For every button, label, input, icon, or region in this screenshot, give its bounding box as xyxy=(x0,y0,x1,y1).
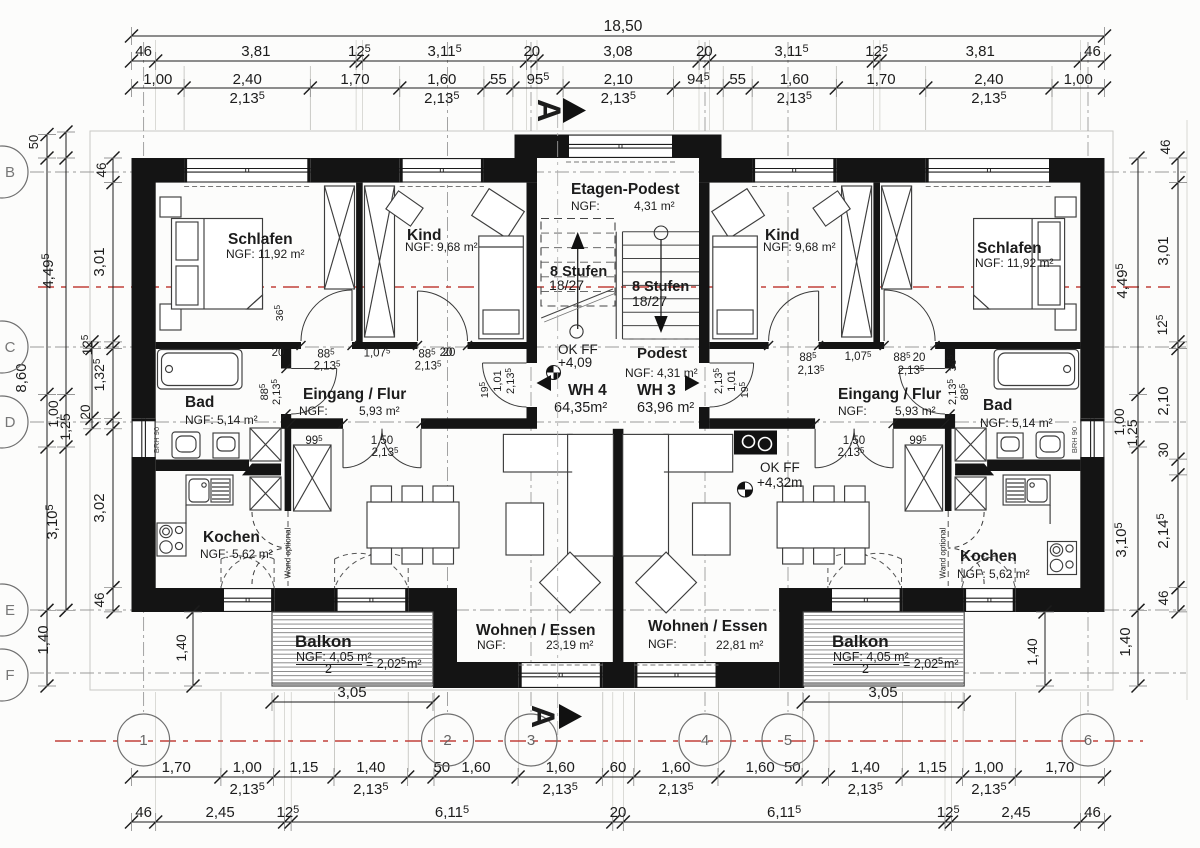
svg-text:1,60: 1,60 xyxy=(546,759,575,776)
svg-text:46: 46 xyxy=(92,592,107,607)
svg-text:Bad: Bad xyxy=(983,397,1012,414)
svg-text:NGF: 4,05 m²: NGF: 4,05 m² xyxy=(296,650,372,664)
svg-text:Eingang / Flur: Eingang / Flur xyxy=(303,386,406,403)
svg-text:1,00: 1,00 xyxy=(974,759,1003,776)
svg-text:1,50: 1,50 xyxy=(371,435,393,447)
svg-text:Wand optional: Wand optional xyxy=(284,527,293,578)
svg-text:1,40: 1,40 xyxy=(356,759,385,776)
svg-text:5: 5 xyxy=(401,656,406,666)
svg-text:3,05: 3,05 xyxy=(868,684,897,701)
svg-text:NGF: 11,92 m²: NGF: 11,92 m² xyxy=(975,256,1053,270)
svg-text:46: 46 xyxy=(1158,139,1173,154)
svg-text:1,25: 1,25 xyxy=(57,413,73,440)
svg-text:Podest: Podest xyxy=(637,345,687,362)
svg-text:20: 20 xyxy=(523,43,540,60)
svg-text:5: 5 xyxy=(938,656,943,666)
svg-text:NGF: 9,68 m²: NGF: 9,68 m² xyxy=(763,240,836,254)
svg-text:2,40: 2,40 xyxy=(233,71,262,88)
svg-text:OK FF: OK FF xyxy=(760,460,800,475)
svg-text:NGF: 5,14 m²: NGF: 5,14 m² xyxy=(980,416,1053,430)
svg-text:20: 20 xyxy=(272,347,285,359)
svg-text:20: 20 xyxy=(696,43,713,60)
svg-text:3,81: 3,81 xyxy=(241,43,270,60)
svg-text:NGF:: NGF: xyxy=(299,404,328,418)
svg-text:1,00: 1,00 xyxy=(233,759,262,776)
svg-text:Schlafen: Schlafen xyxy=(228,231,293,248)
svg-text:3,08: 3,08 xyxy=(603,43,632,60)
svg-text:Balkon: Balkon xyxy=(295,632,352,651)
svg-text:= 2,02: = 2,02 xyxy=(366,657,401,671)
svg-text:Wohnen / Essen: Wohnen / Essen xyxy=(476,622,595,639)
svg-text:B: B xyxy=(5,164,15,181)
svg-text:2,45: 2,45 xyxy=(205,804,234,821)
svg-text:2,10: 2,10 xyxy=(1155,386,1172,415)
svg-text:NGF: 5,62 m²: NGF: 5,62 m² xyxy=(200,547,273,561)
svg-text:A: A xyxy=(525,705,561,728)
svg-text:Wand optional: Wand optional xyxy=(939,527,948,578)
svg-text:Wohnen / Essen: Wohnen / Essen xyxy=(648,618,767,635)
svg-text:2: 2 xyxy=(325,662,332,676)
svg-text:8,60: 8,60 xyxy=(13,363,30,392)
svg-text:1,60: 1,60 xyxy=(745,759,774,776)
svg-text:1,40: 1,40 xyxy=(851,759,880,776)
svg-text:2,10: 2,10 xyxy=(604,71,633,88)
svg-text:5,93 m²: 5,93 m² xyxy=(895,404,936,418)
svg-text:5,93 m²: 5,93 m² xyxy=(359,404,400,418)
svg-text:18,50: 18,50 xyxy=(604,18,643,35)
svg-text:A: A xyxy=(531,99,567,122)
svg-text:3,01: 3,01 xyxy=(1155,236,1172,265)
svg-text:NGF: 9,68 m²: NGF: 9,68 m² xyxy=(405,240,478,254)
svg-text:46: 46 xyxy=(135,804,152,821)
svg-text:55: 55 xyxy=(490,71,507,88)
svg-text:Kochen: Kochen xyxy=(203,529,260,546)
svg-text:1,70: 1,70 xyxy=(866,71,895,88)
svg-text:1,60: 1,60 xyxy=(661,759,690,776)
svg-text:C: C xyxy=(5,339,16,356)
svg-text:D: D xyxy=(5,414,16,431)
svg-text:1,40: 1,40 xyxy=(35,625,52,654)
svg-text:22,81 m²: 22,81 m² xyxy=(716,638,763,652)
svg-text:63,96 m²: 63,96 m² xyxy=(637,400,694,416)
svg-text:1,70: 1,70 xyxy=(162,759,191,776)
svg-text:64,35m²: 64,35m² xyxy=(554,400,607,416)
svg-text:46: 46 xyxy=(94,162,109,177)
svg-text:Schlafen: Schlafen xyxy=(977,240,1042,257)
svg-text:Balkon: Balkon xyxy=(832,632,889,651)
svg-text:1,01: 1,01 xyxy=(726,370,738,391)
svg-text:30: 30 xyxy=(1156,442,1171,457)
svg-text:50: 50 xyxy=(26,135,41,149)
svg-text:1: 1 xyxy=(139,732,147,749)
svg-text:18/27: 18/27 xyxy=(549,277,584,293)
svg-text:NGF:: NGF: xyxy=(648,637,677,651)
svg-text:1,60: 1,60 xyxy=(427,71,456,88)
svg-text:Eingang / Flur: Eingang / Flur xyxy=(838,386,941,403)
svg-text:46: 46 xyxy=(1084,804,1101,821)
svg-text:46: 46 xyxy=(1156,590,1171,605)
svg-text:3,01: 3,01 xyxy=(91,247,108,276)
svg-text:1,15: 1,15 xyxy=(289,759,318,776)
svg-text:1,70: 1,70 xyxy=(1045,759,1074,776)
svg-text:23,19 m²: 23,19 m² xyxy=(546,638,593,652)
svg-text:1,00: 1,00 xyxy=(143,71,172,88)
svg-text:60: 60 xyxy=(610,759,627,776)
svg-text:1,40: 1,40 xyxy=(1117,627,1134,656)
svg-text:1,40: 1,40 xyxy=(173,634,189,661)
svg-text:BRH 90: BRH 90 xyxy=(1070,427,1079,453)
svg-text:6: 6 xyxy=(1084,732,1092,749)
svg-text:20: 20 xyxy=(440,347,453,359)
svg-text:1,60: 1,60 xyxy=(780,71,809,88)
svg-text:2: 2 xyxy=(862,662,869,676)
svg-text:2,40: 2,40 xyxy=(974,71,1003,88)
svg-text:5: 5 xyxy=(784,732,792,749)
svg-text:18/27: 18/27 xyxy=(632,293,667,309)
svg-text:NGF:: NGF: xyxy=(838,404,867,418)
svg-text:3,05: 3,05 xyxy=(337,684,366,701)
svg-text:m²: m² xyxy=(407,657,422,671)
svg-text:Kochen: Kochen xyxy=(960,548,1017,565)
svg-text:4,31 m²: 4,31 m² xyxy=(634,199,675,213)
svg-text:Etagen-Podest: Etagen-Podest xyxy=(571,181,680,198)
svg-text:3: 3 xyxy=(527,732,535,749)
svg-text:WH 3: WH 3 xyxy=(637,382,676,399)
svg-text:3,81: 3,81 xyxy=(966,43,995,60)
svg-text:+4,09: +4,09 xyxy=(558,355,592,370)
svg-text:BRH 90: BRH 90 xyxy=(152,427,161,453)
svg-text:1,40: 1,40 xyxy=(1024,638,1040,665)
svg-text:3,02: 3,02 xyxy=(91,493,108,522)
svg-text:2,45: 2,45 xyxy=(1001,804,1030,821)
svg-text:= 2,02: = 2,02 xyxy=(903,657,938,671)
svg-text:NGF: 5,14 m²: NGF: 5,14 m² xyxy=(185,413,258,427)
svg-text:1,15: 1,15 xyxy=(918,759,947,776)
svg-text:1,01: 1,01 xyxy=(492,370,504,391)
svg-text:NGF: 4,05 m²: NGF: 4,05 m² xyxy=(833,650,909,664)
svg-text:2: 2 xyxy=(443,732,451,749)
svg-text:WH 4: WH 4 xyxy=(568,382,607,399)
svg-text:20: 20 xyxy=(78,404,93,419)
svg-text:50: 50 xyxy=(784,759,801,776)
svg-text:46: 46 xyxy=(1084,43,1101,60)
svg-text:1,60: 1,60 xyxy=(461,759,490,776)
svg-text:m²: m² xyxy=(944,657,959,671)
svg-text:NGF: 5,62 m²: NGF: 5,62 m² xyxy=(957,567,1030,581)
svg-text:Bad: Bad xyxy=(185,394,214,411)
svg-text:55: 55 xyxy=(729,71,746,88)
svg-text:E: E xyxy=(5,602,15,619)
svg-text:46: 46 xyxy=(135,43,152,60)
svg-text:1,25: 1,25 xyxy=(1124,419,1140,446)
svg-text:1,70: 1,70 xyxy=(340,71,369,88)
svg-text:1,00: 1,00 xyxy=(1064,71,1093,88)
svg-text:NGF: 11,92 m²: NGF: 11,92 m² xyxy=(226,247,304,261)
svg-text:F: F xyxy=(5,667,14,684)
svg-text:NGF:: NGF: xyxy=(571,199,600,213)
svg-text:20: 20 xyxy=(913,352,926,364)
svg-text:4: 4 xyxy=(701,732,709,749)
svg-text:50: 50 xyxy=(433,759,450,776)
svg-text:NGF:: NGF: xyxy=(477,638,506,652)
svg-text:+4,32m: +4,32m xyxy=(757,475,802,490)
svg-text:20: 20 xyxy=(610,804,627,821)
